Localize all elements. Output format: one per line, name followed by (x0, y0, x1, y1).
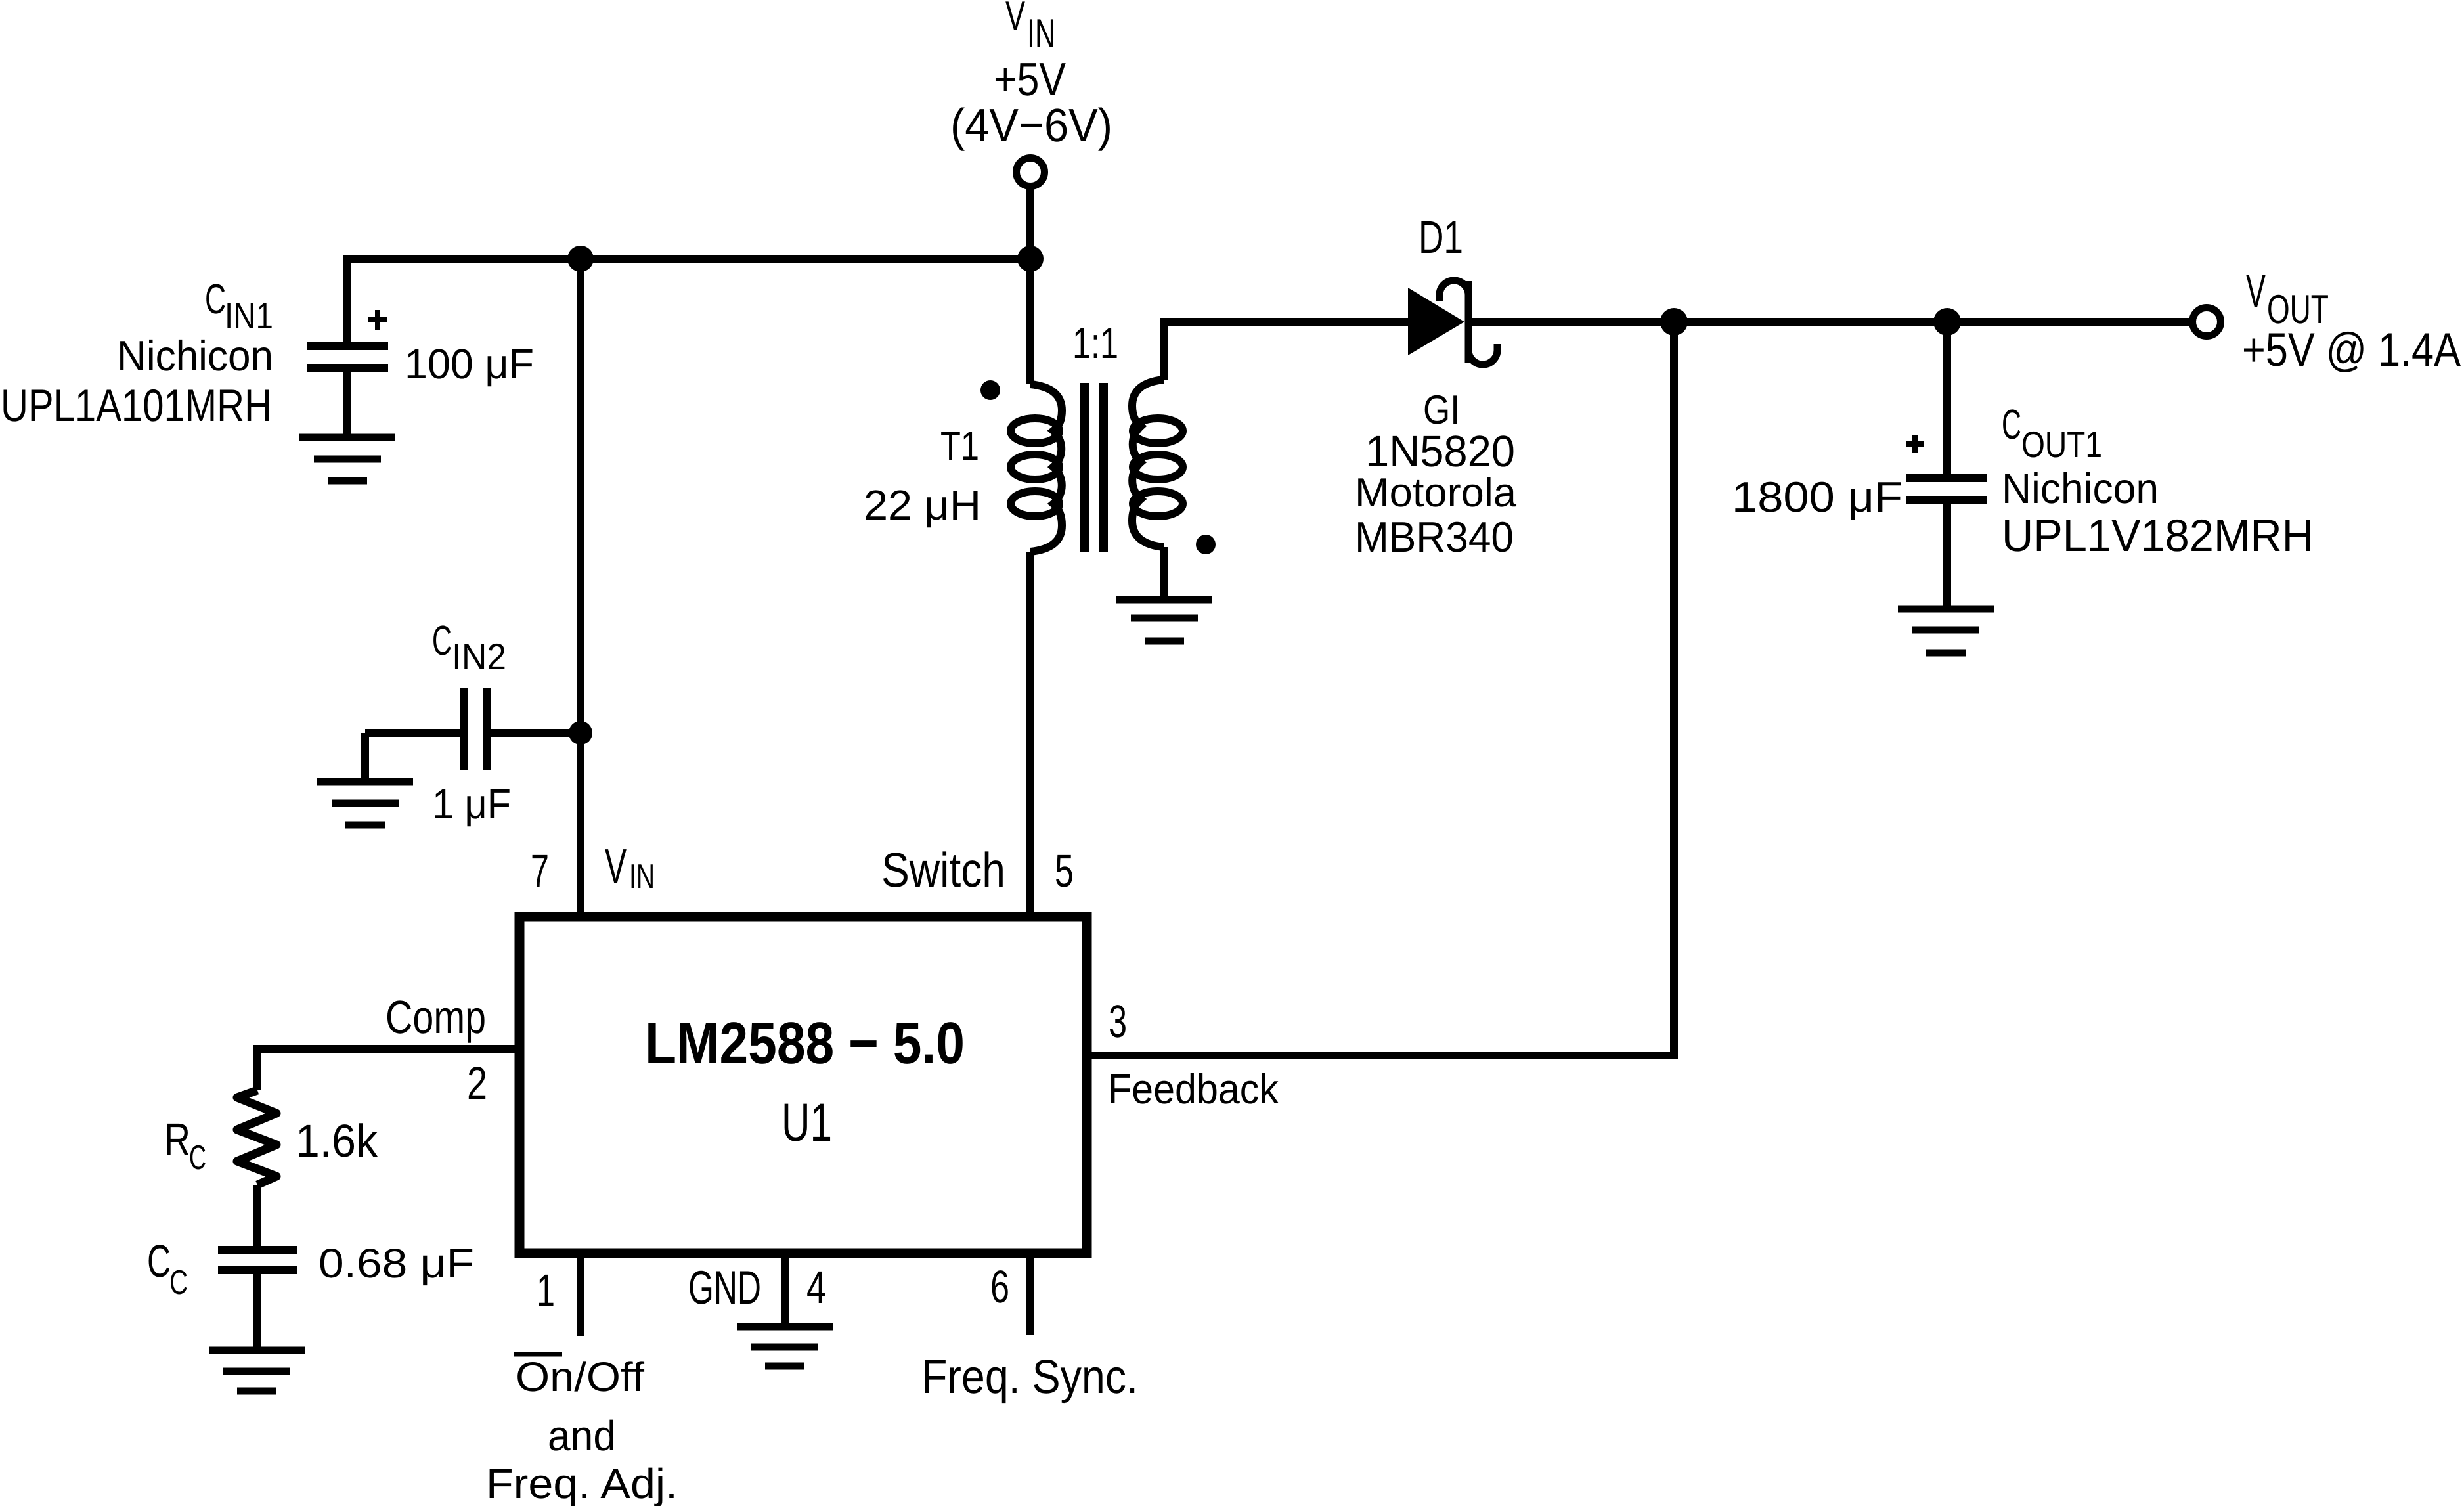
svg-text:LM2588 − 5.0: LM2588 − 5.0 (645, 1011, 965, 1076)
svg-text:MBR340: MBR340 (1355, 513, 1514, 561)
capacitor CIN2 (464, 688, 487, 770)
svg-text:7: 7 (531, 845, 549, 897)
wire diode cathode to VOUT (1472, 318, 2189, 326)
svg-text:UPL1A101MRH: UPL1A101MRH (1, 380, 272, 431)
wire transformer secondary bottom lead (1160, 547, 1168, 600)
svg-text:+5V @ 1.4A: +5V @ 1.4A (2242, 324, 2461, 376)
capacitor CC (218, 1250, 297, 1270)
wire CIN2 left lead (365, 733, 460, 782)
wire feedback horizontal to pin 3 (1087, 1052, 1678, 1059)
svg-text:Switch: Switch (881, 843, 1005, 897)
svg-text:C: C (169, 1264, 188, 1302)
wire CC bottom lead (253, 1270, 261, 1350)
svg-text:1.6k: 1.6k (296, 1115, 378, 1166)
svg-text:and: and (548, 1412, 616, 1459)
capacitor COUT1 (1906, 478, 1987, 500)
svg-text:T1: T1 (940, 424, 979, 469)
wire transformer primary bottom lead to pin 5 (1026, 552, 1034, 918)
svg-text:Motorola: Motorola (1355, 470, 1517, 516)
wire COUT1 top lead (1943, 322, 1951, 476)
svg-text:On/Off: On/Off (516, 1354, 645, 1400)
svg-text:C: C (147, 1235, 171, 1287)
svg-text:IN: IN (1027, 11, 1055, 56)
svg-text:C: C (2002, 401, 2021, 448)
wire comp pin 2 to RC (257, 1049, 519, 1090)
svg-text:OUT1: OUT1 (2021, 424, 2102, 465)
svg-text:GI: GI (1423, 388, 1460, 433)
wire CIN2 right lead to rail (491, 729, 581, 737)
node junction at CIN2 (569, 721, 592, 745)
wire pin 1 stub (577, 1253, 584, 1336)
svg-text:Nichicon: Nichicon (117, 332, 273, 380)
wire COUT1 bottom lead (1943, 502, 1951, 609)
wire VIN terminal lead (1026, 187, 1034, 259)
svg-text:GND: GND (688, 1262, 761, 1314)
ground at GND pin 4 (737, 1327, 833, 1366)
svg-text:IN2: IN2 (452, 636, 506, 677)
svg-text:Freq. Sync.: Freq. Sync. (921, 1350, 1138, 1404)
svg-text:U1: U1 (781, 1093, 832, 1153)
label On/Off with overline (514, 1352, 562, 1357)
svg-text:V: V (1005, 0, 1025, 39)
svg-text:IN1: IN1 (225, 295, 273, 336)
ground below transformer secondary (1116, 600, 1212, 641)
capacitor CIN1 (307, 346, 388, 368)
wire pin 4 stub to ground (781, 1253, 789, 1327)
svg-text:+5V: +5V (994, 54, 1067, 106)
svg-text:4: 4 (806, 1262, 826, 1313)
svg-text:C: C (205, 275, 226, 322)
op-amp U1 LM2588 box (519, 917, 1087, 1253)
node junction at VIN rail tap (567, 246, 594, 272)
transformer T1 primary winding (1030, 384, 1062, 552)
node junction at VIN terminal / transformer (1017, 246, 1044, 272)
svg-text:1: 1 (537, 1265, 555, 1316)
diode D1 schottky cathode bar (1440, 280, 1497, 365)
svg-text:1800 μF: 1800 μF (1732, 473, 1903, 521)
svg-text:Freq. Adj.: Freq. Adj. (486, 1460, 678, 1506)
ground below CIN2 (317, 782, 413, 825)
svg-text:100 μF: 100 μF (405, 340, 534, 388)
terminal VIN open circle (1017, 158, 1045, 187)
svg-text:Comp: Comp (385, 992, 486, 1044)
terminal VOUT open circle (2193, 308, 2221, 336)
svg-text:3: 3 (1109, 996, 1127, 1047)
wire CIN1 top lead (343, 255, 351, 343)
svg-text:UPL1V182MRH: UPL1V182MRH (2002, 510, 2314, 561)
svg-text:5: 5 (1055, 845, 1074, 897)
svg-text:0.68 μF: 0.68 μF (319, 1241, 474, 1287)
transformer T1 core bars (1084, 383, 1103, 552)
wire transformer primary top lead (1026, 259, 1034, 384)
wire RC to CC (253, 1185, 261, 1250)
svg-text:2: 2 (467, 1057, 487, 1109)
wire CIN1 bottom lead (343, 370, 351, 437)
svg-text:1 μF: 1 μF (432, 780, 511, 828)
wire top input rail from CIN1 to VIN node (347, 255, 1030, 263)
transformer T1 primary phase dot (980, 380, 1000, 400)
wire VIN rail down to pin 7 (577, 259, 584, 918)
svg-text:(4V−6V): (4V−6V) (950, 100, 1112, 152)
wire feedback vertical drop (1670, 322, 1678, 1055)
svg-text:D1: D1 (1419, 211, 1463, 263)
ground below CC (209, 1350, 305, 1391)
svg-text:1N5820: 1N5820 (1365, 427, 1515, 476)
resistor RC zigzag (237, 1090, 276, 1185)
plus polarity mark COUT1 (1906, 435, 1924, 453)
wire transformer secondary top lead to diode anode (1160, 322, 1412, 380)
node junction diode cathode / feedback (1660, 308, 1688, 336)
svg-text:Nichicon: Nichicon (2002, 464, 2159, 512)
transformer T1 secondary phase dot (1196, 535, 1216, 554)
svg-text:V: V (2246, 265, 2266, 317)
svg-text:1:1: 1:1 (1072, 319, 1118, 367)
svg-text:C: C (432, 617, 452, 664)
plus polarity mark CIN1 (368, 310, 387, 330)
ground below COUT1 (1898, 609, 1994, 653)
svg-text:IN: IN (629, 858, 655, 896)
svg-text:V: V (605, 839, 627, 893)
wire pin 6 stub (1026, 1253, 1034, 1335)
svg-text:6: 6 (990, 1261, 1009, 1312)
transformer T1 secondary winding (1132, 380, 1164, 547)
svg-text:22 μH: 22 μH (864, 481, 981, 529)
svg-text:C: C (189, 1139, 206, 1177)
node junction at COUT1 (1933, 308, 1961, 336)
svg-text:Feedback: Feedback (1108, 1065, 1279, 1113)
diode D1 triangle (1408, 288, 1464, 355)
ground below CIN1 (299, 437, 395, 481)
svg-text:R: R (164, 1114, 190, 1165)
